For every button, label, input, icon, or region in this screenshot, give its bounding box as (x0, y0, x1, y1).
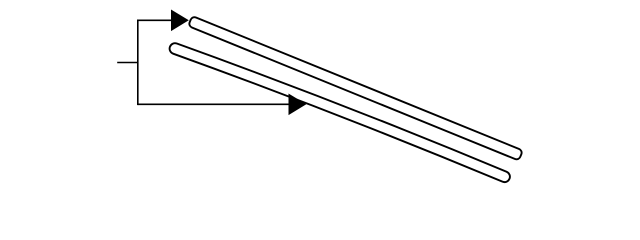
bottom arrowhead (289, 94, 307, 116)
bottom horizontal leader line (138, 103, 290, 105)
top horizontal leader line (138, 19, 172, 21)
top arrowhead (171, 10, 189, 32)
bottom rod (wiper blade 2) (175, 49, 505, 177)
vertical leader line (137, 20, 139, 106)
tick mark on leader (117, 62, 138, 64)
top rod (wiper blade 1) (188, 16, 523, 161)
